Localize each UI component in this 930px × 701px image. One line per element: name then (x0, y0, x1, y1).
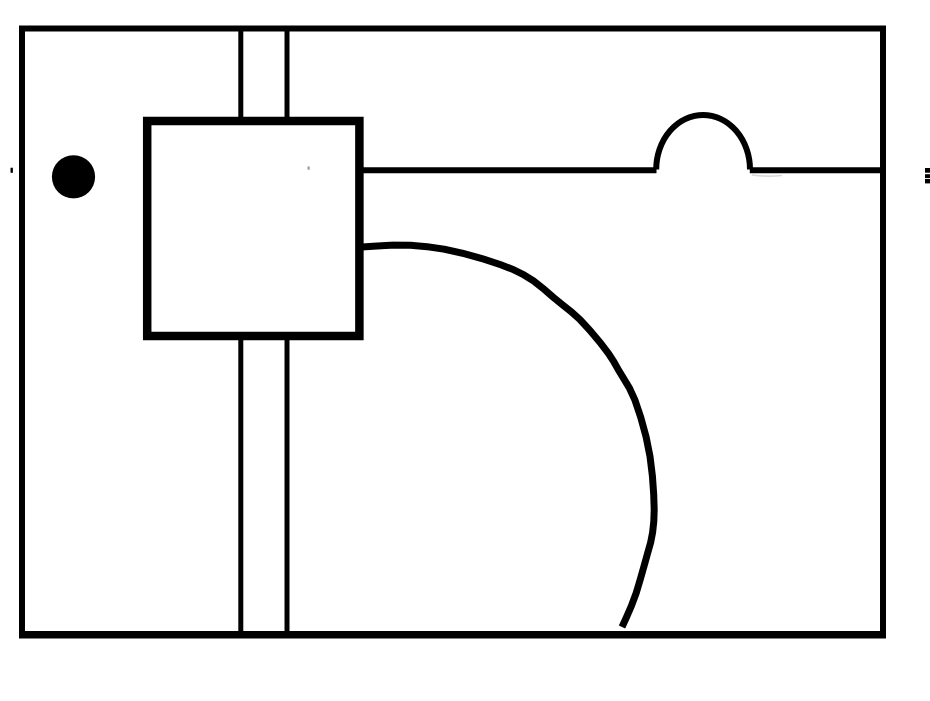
stray speck inside box (308, 167, 310, 170)
node: filled junction dot (52, 155, 95, 198)
wire: horizontal net from box to hop (357, 167, 657, 173)
dashes at right edge (clipped marks) (925, 168, 930, 173)
wire: horizontal net from hop to right border (750, 167, 883, 173)
tick mark at left edge (11, 168, 13, 173)
faint stray mark under wire (752, 175, 782, 176)
component box U1 (147, 121, 359, 336)
wire hop (crossover semicircle) (656, 115, 750, 170)
border frame bottom edge (thicker) (19, 631, 886, 639)
wire: right vertical bus line (285, 29, 290, 635)
wire: left vertical bus line (238, 29, 243, 635)
wire: large curved arc from box to bottom (358, 245, 654, 627)
